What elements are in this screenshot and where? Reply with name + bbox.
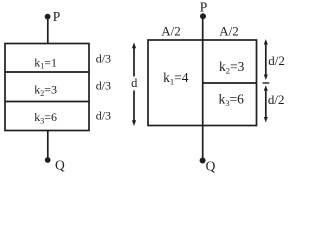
svg-text:d/3: d/3 — [96, 52, 111, 66]
svg-text:d: d — [131, 76, 138, 90]
svg-text:k1=1: k1=1 — [34, 55, 57, 70]
svg-text:k2=3: k2=3 — [34, 83, 57, 98]
svg-text:d/2: d/2 — [268, 92, 285, 107]
svg-text:k3=6: k3=6 — [219, 91, 245, 108]
svg-text:P: P — [53, 9, 61, 24]
svg-text:k2=3: k2=3 — [219, 59, 245, 76]
svg-text:Q: Q — [206, 158, 216, 173]
svg-text:k3=6: k3=6 — [34, 110, 57, 125]
svg-text:A/2: A/2 — [219, 24, 239, 39]
svg-text:Q: Q — [55, 158, 65, 173]
svg-text:d/3: d/3 — [96, 78, 111, 92]
svg-text:d/3: d/3 — [96, 109, 111, 123]
svg-text:d/2: d/2 — [268, 53, 285, 68]
svg-text:k1=4: k1=4 — [163, 70, 189, 87]
svg-text:P: P — [200, 0, 208, 14]
svg-text:A/2: A/2 — [161, 24, 181, 39]
